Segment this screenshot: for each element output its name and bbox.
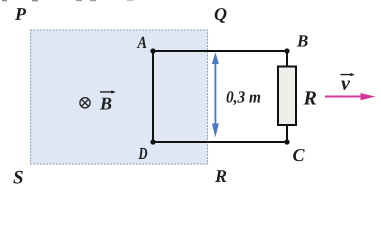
node C (284, 139, 289, 144)
dimension arrow 0,3 m (double-headed, blue) (212, 52, 219, 137)
wire B to resistor top (286, 51, 288, 67)
v vector arrow bar (341, 73, 355, 76)
svg-text:0,3 m: 0,3 m (226, 88, 261, 107)
node B (284, 48, 289, 53)
svg-text:S: S (13, 167, 24, 188)
cut-off text fragments at top edge (2, 0, 133, 1)
wire resistor bottom to C (286, 124, 288, 142)
svg-text:P: P (14, 4, 27, 24)
svg-text:B: B (296, 32, 308, 51)
svg-text:Q: Q (214, 4, 227, 24)
svg-text:v: v (341, 73, 351, 95)
svg-text:D: D (138, 144, 148, 163)
wire A-D (152, 51, 154, 142)
svg-text:R: R (302, 88, 316, 110)
node A (150, 48, 155, 53)
svg-text:A: A (137, 33, 147, 52)
svg-text:R: R (214, 166, 227, 186)
node D (150, 139, 155, 144)
resistor R (box) (278, 67, 296, 126)
wire D-C (153, 141, 287, 143)
B vector arrow bar (100, 90, 116, 93)
wire A-B (153, 50, 287, 52)
svg-text:B: B (99, 93, 112, 113)
magnetic field region PQRS (shaded, dashed border) (31, 30, 208, 164)
velocity arrow v (magenta) (325, 93, 376, 100)
svg-text:C: C (292, 145, 305, 165)
field symbol (B into page) (80, 98, 90, 108)
